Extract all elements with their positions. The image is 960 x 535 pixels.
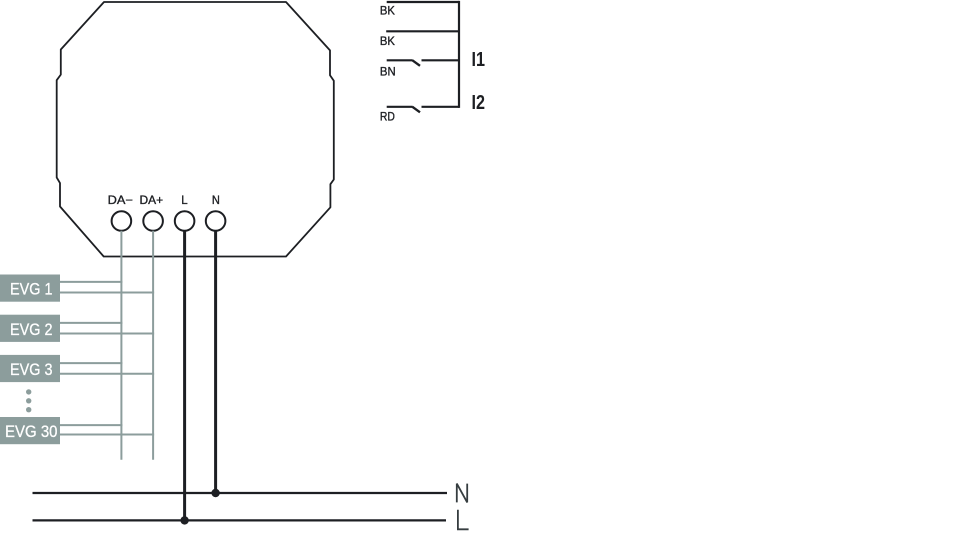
- wire EVG 30 lower to DA+: [60, 434, 154, 436]
- wire L mains bus: [33, 519, 447, 521]
- svg-text:DA+: DA+: [140, 193, 164, 207]
- wire DA- vertical (grey DALI bus): [120, 231, 122, 460]
- ballast EVG 30 box: [0, 417, 60, 444]
- label L (mains): [458, 510, 469, 530]
- svg-text:N: N: [212, 193, 220, 207]
- terminal DA+ circle: [143, 211, 163, 231]
- switch S2 (RD) right segment: [422, 106, 460, 108]
- wire BK input top: [387, 1, 459, 3]
- svg-text:EVG 2: EVG 2: [10, 320, 53, 339]
- ballast EVG 2 box: [0, 315, 60, 342]
- svg-text:I2: I2: [472, 92, 486, 114]
- terminal N circle: [206, 211, 226, 231]
- svg-text:EVG 30: EVG 30: [5, 422, 58, 441]
- svg-text:RD: RD: [380, 110, 395, 124]
- wire DA+ vertical (grey DALI bus): [152, 231, 154, 460]
- svg-text:EVG 1: EVG 1: [10, 280, 53, 299]
- wire EVG 3 lower to DA+: [60, 373, 154, 375]
- wire EVG 2 upper to DA-: [60, 322, 122, 324]
- terminal DA- circle: [112, 211, 132, 231]
- switch S2 (RD) left stub: [387, 106, 413, 108]
- wire EVG 1 upper to DA-: [60, 281, 122, 283]
- svg-text:EVG 3: EVG 3: [10, 360, 53, 379]
- wire EVG 3 upper to DA-: [60, 362, 122, 364]
- wire N mains bus: [33, 492, 448, 494]
- label N (mains): [457, 484, 467, 503]
- wire N vertical (black): [214, 231, 217, 493]
- svg-text:DA−: DA−: [108, 193, 133, 207]
- switch S1 (BN) left stub: [387, 59, 413, 61]
- switch S1 (BN) right segment: [422, 59, 460, 61]
- wire input bus vertical: [458, 1, 460, 108]
- wire EVG 30 upper to DA-: [60, 424, 122, 426]
- ellipsis dot 3: [26, 407, 31, 412]
- svg-text:BK: BK: [380, 3, 395, 17]
- svg-text:BK: BK: [380, 34, 395, 48]
- ballast EVG 1 box: [0, 275, 60, 302]
- wire EVG 1 lower to DA+: [60, 292, 154, 294]
- ellipsis dot 1: [26, 389, 31, 394]
- svg-text:I1: I1: [472, 49, 486, 71]
- junction N: [211, 489, 219, 497]
- switch S2 (RD) blade: [412, 107, 420, 113]
- junction L: [180, 516, 188, 524]
- wire EVG 2 lower to DA+: [60, 333, 154, 335]
- terminal L circle: [175, 211, 195, 231]
- ballast EVG 3 box: [0, 355, 60, 382]
- wire BK input second: [386, 30, 459, 32]
- device U1 flush-mount dimmer outline: [57, 2, 334, 257]
- switch S1 (BN) blade: [412, 60, 420, 66]
- svg-text:BN: BN: [380, 64, 396, 78]
- ellipsis dot 2: [26, 398, 31, 403]
- wire L vertical (black): [183, 231, 186, 521]
- svg-text:L: L: [181, 193, 188, 207]
